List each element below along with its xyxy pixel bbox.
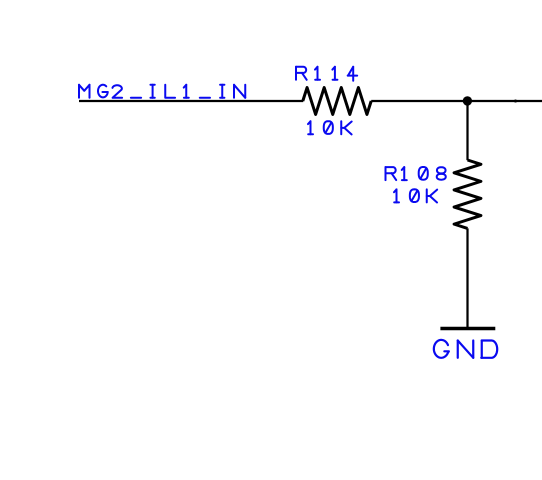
resistor R114 (horizontal zigzag) — [303, 88, 371, 115]
wire: R108 bottom to ground symbol — [466, 228, 468, 328]
R114 value 10K — [310, 121, 312, 134]
net label MG2_IL1_IN — [78, 85, 80, 98]
wire joint tick on output net — [514, 99, 517, 102]
R108 value 10K — [396, 189, 398, 202]
resistor R108 (vertical zigzag) — [454, 160, 481, 228]
ground symbol bar — [440, 327, 495, 331]
R114 reference designator — [295, 67, 297, 80]
wire: from R114 to right edge of sheet — [371, 100, 542, 102]
wire: net MG2_IL1_IN horizontal segment from label to R114 — [79, 100, 303, 102]
R108 reference designator — [385, 167, 387, 180]
wire: junction down to R108 — [466, 101, 468, 160]
junction node at R114 output / R108 top — [463, 96, 472, 105]
ground net name GND — [434, 340, 449, 358]
